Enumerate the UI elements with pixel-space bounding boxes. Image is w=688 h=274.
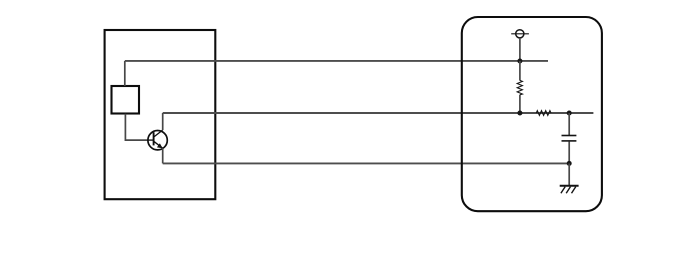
wire: coil bottom to transistor base — [125, 114, 153, 140]
wire: top wire left drop to coil — [124, 61, 126, 86]
wire: resistor R1 to middle junction — [519, 95, 521, 113]
node: junction bottom wire — [567, 161, 572, 166]
wire: emitter down to bottom wire — [162, 148, 164, 163]
wire: top horizontal — [125, 60, 548, 62]
node: junction middle right — [567, 111, 572, 116]
transistor Q1 — [148, 130, 167, 150]
left device box — [105, 30, 216, 199]
wire: collector up to middle wire — [162, 113, 164, 130]
wire: terminal down to top-wire junction — [519, 38, 521, 61]
resistor R2 (horizontal zigzag) — [536, 111, 551, 116]
relay coil square — [112, 86, 140, 114]
ground — [560, 186, 579, 194]
node: junction top wire — [517, 59, 522, 64]
node: junction middle left — [517, 111, 522, 116]
resistor R1 (vertical zigzag) — [517, 80, 522, 94]
terminal T1 — [511, 30, 529, 38]
right device rounded box — [462, 17, 602, 211]
wire: junction down to ground — [568, 163, 570, 185]
wire: junction down to capacitor C1 — [568, 113, 570, 135]
wire: junction down to resistor R1 — [519, 61, 521, 80]
wire: capacitor to bottom junction — [568, 142, 570, 164]
wire: bottom horizontal — [163, 162, 570, 164]
wire: middle horizontal — [163, 112, 594, 114]
capacitor C1 — [562, 136, 577, 141]
